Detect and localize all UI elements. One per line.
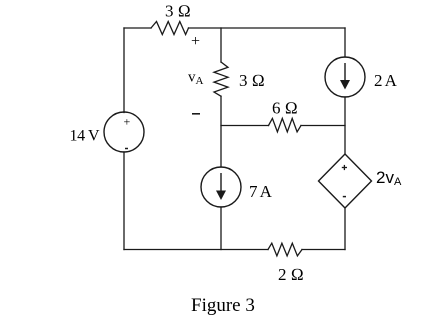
resistor R top 3ohm zigzag xyxy=(151,22,189,35)
wire right vertical top stub xyxy=(344,28,346,57)
label minus of vA xyxy=(192,113,200,115)
svg-text:vA: vA xyxy=(188,70,204,88)
current source I2 2A arrow xyxy=(340,63,350,90)
svg-text:7 A: 7 A xyxy=(249,182,273,201)
wire middle vertical bottom segment xyxy=(220,207,222,250)
wire left vertical upper xyxy=(123,28,125,113)
wire middle vertical mid segment xyxy=(220,96,222,167)
resistor 2ohm zigzag xyxy=(268,243,302,256)
svg-text:14 V: 14 V xyxy=(70,128,101,145)
voltage source V1 14V circle xyxy=(104,112,144,152)
current source I1 7A circle xyxy=(201,167,241,207)
svg-text:+: + xyxy=(191,33,200,50)
label plus inside diamond xyxy=(342,165,347,170)
svg-text:2 Ω: 2 Ω xyxy=(278,265,304,284)
wire middle vertical top stub xyxy=(220,28,222,62)
wire right vertical bottom segment xyxy=(344,208,346,250)
wire right vertical mid segment xyxy=(344,97,346,154)
label minus inside 14V source xyxy=(125,148,128,150)
svg-text:3 Ω: 3 Ω xyxy=(165,2,191,21)
svg-text:2 A: 2 A xyxy=(374,71,398,90)
wire top-right segment xyxy=(189,27,346,29)
wire bottom-right segment xyxy=(302,249,345,251)
svg-text:2vA: 2vA xyxy=(376,168,402,188)
dependent source D1 2vA diamond xyxy=(319,154,372,208)
svg-text:3 Ω: 3 Ω xyxy=(239,71,265,90)
wire middle horizontal left segment xyxy=(221,125,269,127)
svg-text:+: + xyxy=(124,115,131,129)
current source I1 7A arrow xyxy=(216,173,226,200)
svg-text:Figure 3: Figure 3 xyxy=(191,295,255,316)
resistor 6ohm zigzag xyxy=(269,118,302,131)
current source I2 2A circle xyxy=(325,57,365,97)
wire top-left segment xyxy=(124,27,151,29)
wire bottom-left segment xyxy=(124,249,268,251)
label minus inside diamond xyxy=(343,196,346,198)
wire middle horizontal right segment xyxy=(301,125,345,127)
resistor 3ohm vertical zigzag xyxy=(214,62,228,96)
svg-text:6 Ω: 6 Ω xyxy=(272,99,298,118)
wire left vertical lower xyxy=(123,152,125,250)
